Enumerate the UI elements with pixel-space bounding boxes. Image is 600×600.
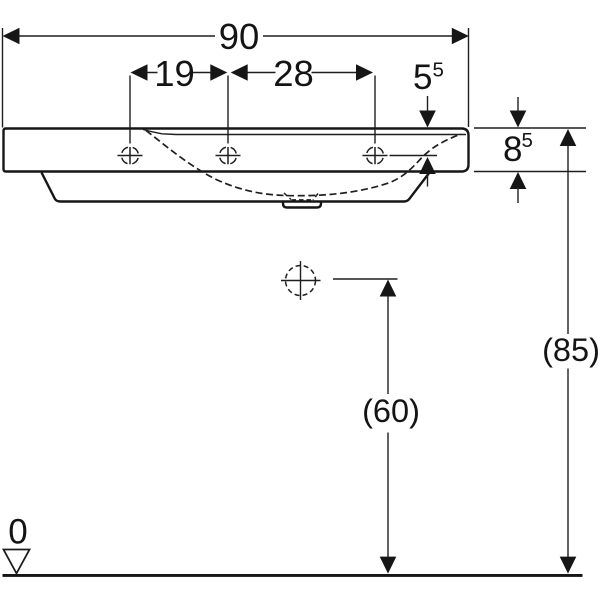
svg-text:(85): (85) — [542, 332, 600, 368]
svg-text:5: 5 — [522, 129, 533, 152]
svg-text:5: 5 — [413, 58, 432, 97]
svg-text:(60): (60) — [362, 393, 420, 429]
svg-text:5: 5 — [433, 59, 444, 82]
svg-text:0: 0 — [8, 513, 27, 552]
svg-text:8: 8 — [503, 130, 522, 169]
svg-text:28: 28 — [273, 53, 314, 94]
svg-text:19: 19 — [154, 53, 195, 94]
svg-text:90: 90 — [219, 16, 260, 57]
